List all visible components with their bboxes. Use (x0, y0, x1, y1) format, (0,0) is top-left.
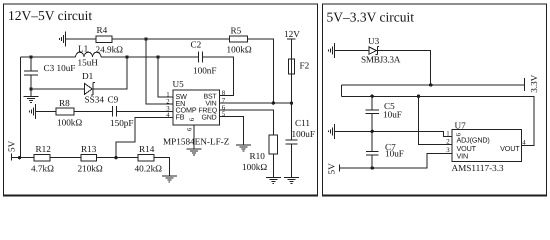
svg-text:5V–3.3V circuit: 5V–3.3V circuit (327, 10, 415, 25)
svg-text:9: 9 (188, 118, 195, 122)
svg-text:R8: R8 (59, 98, 70, 108)
svg-text:VIN: VIN (205, 100, 216, 107)
svg-text:5V: 5V (7, 140, 17, 152)
svg-text:10uF: 10uF (385, 149, 404, 159)
svg-text:100uF: 100uF (292, 129, 316, 139)
svg-text:210kΩ: 210kΩ (78, 164, 103, 174)
svg-text:R4: R4 (97, 25, 108, 35)
svg-text:100kΩ: 100kΩ (57, 118, 82, 128)
svg-text:100nF: 100nF (193, 66, 217, 76)
svg-text:1: 1 (446, 131, 449, 138)
svg-text:3: 3 (446, 147, 450, 154)
svg-text:R10: R10 (250, 151, 266, 161)
svg-text:C2: C2 (191, 40, 202, 50)
svg-text:GND: GND (202, 114, 217, 121)
svg-text:U3: U3 (368, 36, 380, 46)
svg-text:2: 2 (166, 99, 170, 106)
svg-text:12V–5V circuit: 12V–5V circuit (8, 8, 92, 23)
svg-text:5V: 5V (327, 163, 337, 175)
svg-text:SMBJ3.3A: SMBJ3.3A (361, 55, 401, 65)
svg-text:4.7kΩ: 4.7kΩ (31, 164, 54, 174)
svg-text:C11: C11 (295, 118, 310, 128)
svg-text:40.2kΩ: 40.2kΩ (135, 164, 163, 174)
svg-text:U5: U5 (173, 79, 185, 89)
svg-text:C3 10uF: C3 10uF (44, 63, 76, 73)
svg-text:SS34: SS34 (85, 95, 105, 105)
svg-text:FB: FB (176, 112, 185, 121)
svg-text:9: 9 (454, 133, 461, 137)
svg-text:L1: L1 (78, 44, 89, 54)
svg-text:150pF: 150pF (110, 118, 134, 128)
svg-text:R14: R14 (139, 144, 155, 154)
svg-text:8: 8 (222, 90, 226, 97)
svg-text:3.3V: 3.3V (529, 74, 539, 92)
svg-text:R5: R5 (231, 26, 242, 36)
svg-text:12V: 12V (284, 29, 300, 39)
svg-text:2: 2 (446, 139, 450, 146)
svg-text:R13: R13 (81, 144, 97, 154)
svg-text:F2: F2 (300, 61, 310, 71)
svg-text:C9: C9 (108, 95, 119, 105)
svg-text:9: 9 (185, 128, 192, 132)
svg-text:15uH: 15uH (78, 58, 99, 68)
svg-text:D1: D1 (82, 71, 94, 81)
svg-text:BST: BST (203, 93, 217, 100)
svg-text:MP1584EN-LF-Z: MP1584EN-LF-Z (163, 137, 230, 147)
svg-text:10uF: 10uF (383, 110, 402, 120)
svg-text:U7: U7 (455, 121, 467, 131)
svg-text:100kΩ: 100kΩ (242, 162, 267, 172)
svg-text:AMS1117-3.3: AMS1117-3.3 (452, 163, 505, 173)
svg-text:VIN: VIN (457, 152, 469, 161)
svg-text:VOUT: VOUT (500, 144, 520, 153)
svg-text:4: 4 (166, 112, 170, 119)
svg-text:100kΩ: 100kΩ (227, 45, 252, 55)
svg-text:4: 4 (522, 139, 526, 146)
svg-text:R12: R12 (36, 144, 52, 154)
svg-text:1: 1 (166, 92, 169, 99)
